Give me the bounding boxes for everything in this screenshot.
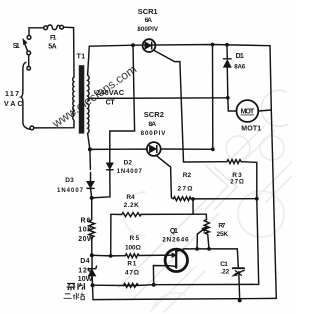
svg-text:R4: R4 — [126, 194, 135, 201]
wire node to motor — [228, 98, 237, 111]
svg-text:VAC: VAC — [4, 101, 23, 108]
rail to R5 — [111, 255, 126, 257]
transistor Q1 (UJT 2N2646) — [153, 249, 187, 285]
svg-text:.22: .22 — [220, 268, 229, 275]
svg-text:25K: 25K — [217, 231, 229, 238]
svg-text:800PIV: 800PIV — [137, 26, 158, 33]
resistor R6 — [89, 198, 95, 255]
brace for 117 VAC source — [21, 62, 30, 129]
svg-text:27Ω: 27Ω — [230, 179, 244, 186]
node: R2/R7 branch — [191, 197, 195, 201]
switch S1 — [23, 36, 31, 55]
transformer T1 primary winding — [73, 77, 74, 120]
svg-text:10K: 10K — [78, 227, 92, 234]
node: secondary bottom / SCR2 / D3 — [88, 147, 92, 151]
svg-text:R5: R5 — [130, 235, 140, 242]
bottom rail — [93, 285, 277, 299]
node: R6 bottom / D4 / rail — [90, 253, 94, 257]
svg-text:2N2646: 2N2646 — [162, 236, 189, 243]
svg-text:C1: C1 — [220, 261, 228, 268]
node: rail / R4 drop — [109, 254, 113, 258]
svg-text:Q1: Q1 — [170, 228, 178, 235]
label zener chinese erjiguan — [64, 293, 85, 300]
svg-text:CT: CT — [106, 99, 116, 106]
B2 wire to R7/C1 — [184, 248, 237, 250]
wire source to transformer primary bottom — [34, 121, 74, 128]
R4 wire right — [141, 213, 206, 215]
wire from top wire down to D2 — [110, 45, 135, 162]
svg-text:R2: R2 — [183, 172, 192, 179]
svg-text:D3: D3 — [65, 177, 74, 184]
secondary bottom lead — [88, 133, 90, 149]
transformer core — [79, 65, 85, 133]
R3 wire left — [184, 161, 227, 163]
diode D3 — [87, 182, 94, 189]
svg-text:8A: 8A — [148, 121, 156, 128]
R7 wiper arrow — [197, 227, 207, 249]
supply rail y256 — [92, 254, 111, 257]
svg-text:MOT1: MOT1 — [241, 126, 261, 133]
wire R4 drop — [110, 214, 112, 256]
svg-text:100Ω: 100Ω — [125, 244, 141, 251]
wire cathode tie vertical — [212, 45, 214, 150]
svg-text:SCR2: SCR2 — [144, 110, 164, 119]
wire motor to right rail — [258, 110, 271, 111]
diode D2 — [107, 163, 114, 170]
wire top to D1 — [226, 45, 228, 59]
wire R2 node down to R4 wire — [192, 199, 194, 214]
wire from S1 up to fuse — [29, 28, 44, 36]
zener D4 — [88, 255, 96, 285]
svg-text:S1: S1 — [13, 43, 20, 50]
R2 wire right — [191, 198, 257, 200]
node: B1 / R1 line — [152, 283, 156, 287]
left column wire secondary to D3 to R6 — [90, 149, 92, 198]
wire junction down and left to R1 line — [154, 199, 259, 285]
AC source terminal upper — [27, 55, 31, 70]
svg-text:1N4007: 1N4007 — [117, 169, 143, 175]
svg-text:117: 117 — [5, 91, 19, 98]
node: R2/R3 junction — [255, 197, 259, 201]
SCR2 U — [147, 142, 161, 156]
svg-text:R7: R7 — [218, 222, 225, 229]
svg-text:27Ω: 27Ω — [178, 186, 193, 193]
AC source terminal lower — [30, 126, 34, 130]
node: B2 wire / R7 bottom — [207, 247, 211, 251]
label zener chinese qina — [67, 283, 85, 290]
svg-text:10W: 10W — [78, 276, 93, 283]
svg-text:SCR1: SCR1 — [138, 7, 158, 16]
node: R6 top / D2 — [90, 196, 94, 200]
CT tap wire — [88, 98, 228, 100]
diode D1 — [224, 59, 232, 67]
resistor R5 — [125, 254, 139, 258]
R5 wire to Q1 emitter — [139, 254, 172, 256]
svg-text:R1: R1 — [127, 261, 136, 268]
svg-text:2.2K: 2.2K — [124, 202, 139, 209]
wire D1 to CT node — [226, 67, 229, 98]
resistor R3 — [227, 160, 242, 164]
node: C1 bottom / bottom rail — [238, 298, 242, 302]
resistor R1 — [93, 284, 154, 287]
R3 wire right and drop — [241, 162, 256, 199]
svg-text:6A: 6A — [145, 17, 152, 24]
svg-text:8A6: 8A6 — [234, 64, 246, 71]
svg-text:47Ω: 47Ω — [125, 269, 139, 276]
secondary top lead — [88, 46, 90, 75]
transformer secondary winding upper — [88, 75, 90, 101]
fuse F1 — [44, 25, 64, 30]
R7 top lead — [205, 214, 207, 219]
svg-text:D4: D4 — [80, 258, 89, 265]
svg-text:240VAC: 240VAC — [96, 88, 125, 97]
svg-text:F1: F1 — [50, 34, 57, 41]
SCR2 cathode wire — [161, 148, 213, 150]
SCR1 U — [143, 39, 156, 52]
potentiometer R7 — [204, 220, 209, 249]
SCR2 gate wire — [156, 155, 174, 199]
svg-text:5A: 5A — [48, 44, 56, 51]
SCR1 gate wire — [154, 50, 184, 162]
svg-text:12V: 12V — [78, 267, 92, 274]
motor MOT1 — [237, 100, 259, 122]
svg-text:800PIV: 800PIV — [141, 130, 167, 137]
svg-text:1N4007: 1N4007 — [57, 188, 84, 194]
SCR2 wire from transformer — [90, 148, 147, 150]
node: SCR2 cathode / tie — [211, 147, 215, 151]
node: top wire / descender to D2 — [131, 43, 135, 47]
transformer secondary winding lower — [88, 104, 89, 134]
wire D2 to R6 top node — [92, 170, 110, 198]
resistor R2 — [173, 197, 191, 201]
svg-text:D2: D2 — [124, 159, 133, 166]
node: B2 wire / wiper — [195, 247, 199, 251]
svg-text:T1: T1 — [77, 54, 86, 61]
svg-text:R6: R6 — [81, 218, 91, 225]
wire fuse to transformer primary — [64, 27, 75, 77]
node: SCR cathode tie top — [211, 43, 215, 47]
svg-text:20W: 20W — [78, 236, 94, 243]
node: top wire / D1 — [225, 43, 229, 47]
resistor R4 — [111, 213, 141, 217]
node: D4 bottom / R1 line — [91, 283, 95, 287]
top wire — [89, 45, 270, 47]
svg-text:D1: D1 — [236, 53, 244, 60]
node: CT / D1 / motor — [226, 96, 230, 100]
capacitor C1 — [232, 268, 244, 300]
C1 top lead — [237, 249, 238, 267]
svg-text:MOT: MOT — [241, 109, 255, 116]
right rail — [270, 46, 276, 299]
